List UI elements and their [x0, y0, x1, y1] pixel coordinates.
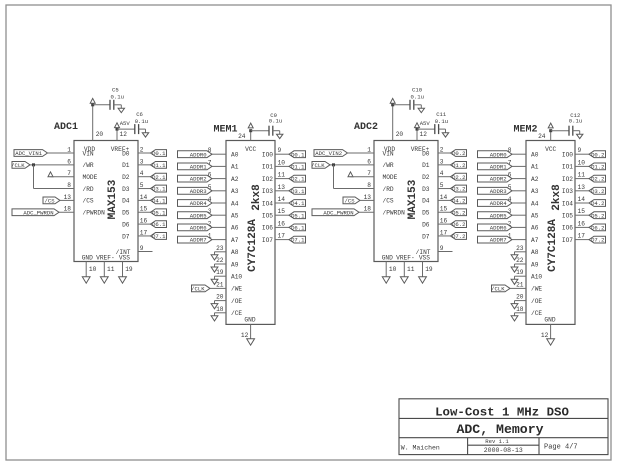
- svg-text:21: 21: [216, 281, 224, 288]
- wire IO1 to tag: [275, 165, 289, 167]
- svg-text:MODE: MODE: [83, 174, 98, 181]
- svg-text:11: 11: [578, 172, 586, 179]
- svg-text:D1.1: D1.1: [152, 162, 166, 169]
- net label D7.1: [151, 233, 167, 241]
- wire GND pin 12 stub: [250, 324, 252, 338]
- svg-text:IO2: IO2: [262, 176, 273, 183]
- svg-text:ADDR0: ADDR0: [490, 151, 507, 158]
- svg-text:IO1: IO1: [262, 164, 273, 171]
- svg-text:10: 10: [89, 266, 97, 273]
- svg-text:9: 9: [578, 147, 582, 154]
- junction: [32, 163, 35, 166]
- wire /CLK to pin 6 /WR: [30, 164, 74, 166]
- wire A10 to ground: [515, 275, 527, 277]
- wire cap to ground: [114, 104, 122, 106]
- svg-text:5: 5: [140, 182, 144, 189]
- wire IO4 to tag: [575, 202, 589, 204]
- title block: [399, 399, 608, 455]
- svg-text:MODE: MODE: [383, 174, 398, 181]
- svg-text:12: 12: [120, 131, 128, 138]
- svg-text:/WE: /WE: [531, 286, 542, 293]
- svg-text:A1: A1: [231, 164, 239, 171]
- svg-text:IO3: IO3: [262, 188, 273, 195]
- wire IO2 to tag: [575, 178, 589, 180]
- net label D1.2: [451, 161, 467, 169]
- wire /CLK branch to pin 8 /RD: [334, 188, 375, 190]
- wire cap to ground: [573, 130, 580, 132]
- svg-text:/CE: /CE: [231, 310, 242, 317]
- svg-text:A8: A8: [531, 249, 539, 256]
- svg-text:15: 15: [440, 206, 448, 213]
- svg-text:/CLK: /CLK: [491, 286, 505, 293]
- power +5V at VDD: [90, 98, 95, 103]
- svg-text:D1: D1: [122, 162, 130, 169]
- svg-text:W. Maichen: W. Maichen: [401, 444, 440, 451]
- svg-text:20: 20: [516, 294, 524, 301]
- svg-text:/OE: /OE: [231, 298, 242, 305]
- svg-text:19: 19: [516, 269, 524, 276]
- wire bottom pin stub: [85, 262, 87, 277]
- wire VREF+ to C11: [417, 128, 435, 130]
- svg-text:D7.1: D7.1: [152, 233, 166, 240]
- net label D1.1: [289, 163, 306, 171]
- svg-text:19: 19: [425, 266, 433, 273]
- svg-text:4: 4: [140, 170, 144, 177]
- svg-text:ADDR7: ADDR7: [490, 237, 507, 244]
- net label ADC_PWRDN: [312, 209, 359, 217]
- wire ADC_VIN1 to pin 1: [48, 152, 75, 154]
- svg-text:A9: A9: [531, 261, 539, 268]
- net label D5.2: [451, 209, 467, 217]
- ground: [211, 255, 218, 260]
- wire bottom pin stub: [403, 262, 405, 277]
- svg-text:IO1: IO1: [562, 164, 573, 171]
- svg-text:IO0: IO0: [562, 152, 573, 159]
- wire bottom pin stub: [385, 262, 387, 277]
- svg-text:ADDR1: ADDR1: [490, 164, 507, 171]
- svg-text:10: 10: [278, 159, 286, 166]
- svg-text:D4.1: D4.1: [152, 198, 166, 205]
- svg-text:/CS: /CS: [383, 198, 394, 205]
- svg-text:GND: GND: [244, 317, 255, 324]
- svg-text:15: 15: [140, 206, 148, 213]
- capacitor C12 0.1u: [569, 112, 582, 136]
- svg-text:MAX153: MAX153: [407, 179, 419, 219]
- net label D4.1: [289, 200, 306, 208]
- svg-text:ADC2: ADC2: [354, 122, 378, 133]
- svg-text:23: 23: [516, 245, 524, 252]
- svg-text:7: 7: [367, 170, 371, 177]
- svg-text:VCC: VCC: [245, 146, 256, 153]
- net label ADC_VIN2: [314, 150, 348, 158]
- svg-text:D4.2: D4.2: [591, 200, 604, 207]
- svg-text:12: 12: [241, 332, 249, 339]
- svg-text:ADDR5: ADDR5: [190, 212, 207, 219]
- wire IO6 to tag: [275, 226, 289, 228]
- wire /CLK to /WE: [210, 287, 226, 289]
- wire ADDR7 to A7: [512, 239, 526, 241]
- junction: [549, 129, 552, 132]
- wire cap to ground: [139, 128, 146, 130]
- wire VDD to C5: [93, 104, 110, 106]
- svg-text:A3: A3: [231, 188, 239, 195]
- svg-text:VDD: VDD: [384, 146, 395, 153]
- net label D6.1: [289, 224, 306, 232]
- svg-text:VREF-: VREF-: [396, 255, 415, 262]
- svg-text:7: 7: [67, 170, 71, 177]
- wire D2 pin to tag: [438, 176, 451, 178]
- svg-text:ADDR0: ADDR0: [190, 151, 207, 158]
- net label ADDR5: [478, 212, 513, 220]
- net label D7.1: [289, 236, 306, 244]
- svg-text:D0.2: D0.2: [452, 150, 465, 157]
- ground: [211, 304, 218, 309]
- svg-text:8: 8: [67, 182, 71, 189]
- wire ADC_PWRDN to pin 18: [59, 211, 74, 213]
- wire A8 to ground: [215, 251, 227, 253]
- svg-text:24: 24: [238, 133, 246, 140]
- wire IO6 to tag: [575, 226, 589, 228]
- svg-text:D1: D1: [422, 162, 430, 169]
- wire D6 pin to tag: [438, 223, 451, 225]
- svg-text:MAX153: MAX153: [107, 179, 119, 219]
- wire IO5 to tag: [575, 214, 589, 216]
- svg-text:A3: A3: [531, 188, 539, 195]
- svg-text:D4: D4: [122, 198, 130, 205]
- net label D5.2: [589, 212, 606, 220]
- svg-text:IO7: IO7: [262, 237, 273, 244]
- IC MEM1 CY7C128A 2kx8 SRAM: [208, 125, 285, 340]
- svg-text:D3.2: D3.2: [452, 186, 465, 193]
- svg-text:A8: A8: [231, 249, 239, 256]
- wire D4 pin to tag: [138, 199, 151, 201]
- net label D3.2: [451, 185, 467, 193]
- wire D5 pin to tag: [138, 211, 151, 213]
- wire ADC_PWRDN to pin 18: [359, 211, 374, 213]
- svg-text:D5: D5: [422, 210, 430, 217]
- svg-text:20: 20: [96, 131, 104, 138]
- svg-text:D4.1: D4.1: [291, 200, 305, 207]
- svg-text:A10: A10: [531, 274, 542, 281]
- net label D2.1: [151, 173, 167, 181]
- junction: [416, 128, 419, 131]
- svg-text:1: 1: [67, 146, 71, 153]
- svg-text:0.1u: 0.1u: [111, 93, 124, 100]
- wire ADDR5 to A5: [512, 214, 526, 216]
- wire D2 pin to tag: [138, 176, 151, 178]
- svg-text:0.1u: 0.1u: [269, 118, 282, 125]
- net label ADDR6: [178, 224, 213, 232]
- svg-text:D2.1: D2.1: [291, 176, 305, 183]
- svg-text:14: 14: [140, 194, 148, 201]
- svg-text:D7: D7: [122, 233, 130, 240]
- svg-text:D6: D6: [122, 221, 130, 228]
- svg-text:D2.2: D2.2: [452, 174, 465, 181]
- ground: [119, 277, 127, 283]
- wire D3 pin to tag: [138, 188, 151, 190]
- net label ADDR1: [478, 163, 513, 171]
- wire D1 pin to tag: [438, 164, 451, 166]
- svg-text:D0.1: D0.1: [152, 150, 166, 157]
- svg-text:VCC: VCC: [545, 146, 556, 153]
- svg-text:D2.1: D2.1: [152, 174, 166, 181]
- svg-text:A9: A9: [231, 261, 239, 268]
- ground: [211, 316, 218, 321]
- svg-text:18: 18: [516, 306, 524, 313]
- svg-text:6: 6: [367, 158, 371, 165]
- capacitor C10 0.1u: [410, 86, 424, 110]
- ground: [382, 277, 390, 283]
- net label ADDR7: [478, 236, 513, 244]
- net label /CLK: [491, 285, 510, 293]
- IC U2 ADC2 MAX153 8-bit ADC: [354, 122, 448, 273]
- svg-text:D7.2: D7.2: [591, 237, 604, 244]
- wire /INT stub pin 9: [438, 251, 453, 253]
- wire +5V to pin 7 MODE: [51, 176, 75, 178]
- wire +5V to pin 7 MODE: [351, 176, 375, 178]
- net label /CS: [43, 197, 60, 205]
- svg-text:/OE: /OE: [531, 298, 542, 305]
- wire /INT stub pin 9: [138, 251, 153, 253]
- svg-text:18: 18: [216, 306, 224, 313]
- wire cap to ground: [414, 104, 422, 106]
- svg-text:ADC, Memory: ADC, Memory: [456, 422, 543, 437]
- wire D7 pin to tag: [438, 235, 451, 237]
- svg-text:/WR: /WR: [83, 162, 94, 169]
- svg-text:A5: A5: [231, 213, 239, 220]
- wire IO0 to tag: [575, 153, 589, 155]
- svg-text:GND: GND: [382, 255, 393, 262]
- net label ADDR4: [478, 200, 513, 208]
- svg-text:15: 15: [278, 208, 286, 215]
- wire A9 to ground: [215, 263, 227, 265]
- wire IO1 to tag: [575, 165, 589, 167]
- svg-text:ADDR4: ADDR4: [190, 200, 207, 207]
- net label D4.1: [151, 197, 167, 205]
- svg-text:VREF-: VREF-: [96, 255, 115, 262]
- svg-text:A7: A7: [531, 237, 539, 244]
- net label /CLK: [311, 161, 330, 169]
- wire ADC_VIN2 to pin 1: [348, 152, 375, 154]
- wire VREF+ pin 12 stub: [116, 129, 118, 140]
- svg-text:D5.2: D5.2: [591, 212, 604, 219]
- net label ADDR3: [178, 187, 213, 195]
- svg-text:A5: A5: [531, 213, 539, 220]
- net label /CS: [343, 197, 360, 205]
- svg-text:13: 13: [364, 194, 372, 201]
- svg-text:/PWRDN: /PWRDN: [383, 210, 406, 217]
- svg-text:IO0: IO0: [262, 152, 273, 159]
- wire VREF+ pin 12 stub: [416, 129, 418, 140]
- svg-text:A4: A4: [531, 200, 539, 207]
- svg-text:A5V: A5V: [120, 120, 131, 127]
- wire ADDR3 to A3: [512, 190, 526, 192]
- wire bottom pin stub: [122, 262, 124, 277]
- svg-text:ADDR3: ADDR3: [190, 188, 207, 195]
- svg-text:ADC_VIN2: ADC_VIN2: [315, 150, 342, 157]
- svg-text:C6: C6: [136, 111, 143, 118]
- svg-text:0.1u: 0.1u: [411, 93, 424, 100]
- svg-text:GND: GND: [544, 317, 555, 324]
- svg-text:D1.2: D1.2: [591, 164, 604, 171]
- power +5V at VDD: [390, 98, 395, 103]
- svg-text:A6: A6: [531, 225, 539, 232]
- wire cap to ground: [439, 128, 446, 130]
- ground: [277, 134, 283, 138]
- wire IO3 to tag: [575, 190, 589, 192]
- wire ADDR4 to A4: [212, 202, 226, 204]
- svg-text:A2: A2: [231, 176, 239, 183]
- svg-text:ADDR5: ADDR5: [490, 212, 507, 219]
- svg-text:6: 6: [67, 158, 71, 165]
- net label D1.1: [151, 161, 167, 169]
- svg-text:VDD: VDD: [84, 146, 95, 153]
- wire ADDR0 to A0: [512, 153, 526, 155]
- svg-text:D4.2: D4.2: [452, 198, 465, 205]
- svg-text:17: 17: [278, 233, 286, 240]
- junction: [249, 129, 252, 132]
- svg-text:IO2: IO2: [562, 176, 573, 183]
- net label D6.1: [151, 221, 167, 229]
- svg-text:3: 3: [440, 158, 444, 165]
- svg-text:9: 9: [278, 147, 282, 154]
- net label ADDR3: [478, 187, 513, 195]
- svg-text:D6: D6: [422, 221, 430, 228]
- wire IO7 to tag: [575, 239, 589, 241]
- svg-text:ADC_VIN1: ADC_VIN1: [15, 150, 42, 157]
- svg-text:A0: A0: [531, 152, 539, 159]
- svg-text:D5.1: D5.1: [291, 212, 305, 219]
- wire D0 pin to tag: [438, 152, 451, 154]
- net label ADDR2: [478, 175, 513, 183]
- svg-text:D2: D2: [422, 174, 430, 181]
- svg-text:14: 14: [440, 194, 448, 201]
- svg-text:9: 9: [440, 245, 444, 252]
- wire /CS to pin 13: [60, 199, 74, 201]
- svg-text:ADDR4: ADDR4: [490, 200, 507, 207]
- net label D2.1: [289, 175, 306, 183]
- net label /CLK: [11, 161, 30, 169]
- wire ADDR4 to A4: [512, 202, 526, 204]
- svg-text:/CLK: /CLK: [191, 286, 205, 293]
- ground: [511, 255, 518, 260]
- wire /CLK branch vertical: [33, 165, 35, 189]
- wire IO5 to tag: [275, 214, 289, 216]
- svg-text:0.1u: 0.1u: [435, 118, 448, 125]
- net label ADC_VIN1: [14, 150, 48, 158]
- wire VDD to C10: [393, 104, 410, 106]
- svg-text:12: 12: [541, 332, 549, 339]
- svg-text:A6: A6: [231, 225, 239, 232]
- power A5V at VREF+: [415, 123, 420, 128]
- svg-text:16: 16: [440, 218, 448, 225]
- svg-text:ADDR2: ADDR2: [490, 176, 507, 183]
- ground: [418, 108, 424, 112]
- capacitor C6 0.1u: [135, 111, 148, 134]
- net label D3.1: [151, 185, 167, 193]
- net label D0.2: [589, 151, 606, 159]
- ground: [118, 108, 124, 112]
- svg-text:16: 16: [278, 220, 286, 227]
- svg-text:ADDR2: ADDR2: [190, 176, 207, 183]
- ground: [511, 267, 518, 272]
- wire IO0 to tag: [275, 153, 289, 155]
- svg-text:17: 17: [578, 233, 586, 240]
- wire /CLK to /WE: [510, 287, 526, 289]
- net label D3.1: [289, 187, 306, 195]
- svg-text:D5: D5: [122, 210, 130, 217]
- svg-text:GND: GND: [82, 255, 93, 262]
- svg-text:D0.1: D0.1: [291, 151, 305, 158]
- svg-text:18: 18: [64, 206, 72, 213]
- svg-text:IO4: IO4: [562, 200, 573, 207]
- power +5V at MODE: [48, 172, 53, 177]
- wire IO7 to tag: [275, 239, 289, 241]
- svg-text:2: 2: [140, 146, 144, 153]
- wire ADDR3 to A3: [212, 190, 226, 192]
- net label /CLK: [191, 285, 210, 293]
- wire VREF+ to C6: [117, 128, 135, 130]
- svg-text:ADC_PWRDN: ADC_PWRDN: [23, 209, 53, 216]
- power +5V at MODE: [348, 172, 353, 177]
- svg-text:CY7C128A: CY7C128A: [547, 219, 559, 272]
- svg-text:11: 11: [407, 266, 415, 273]
- svg-text:Rev 1.1: Rev 1.1: [485, 438, 509, 445]
- junction: [391, 103, 394, 106]
- wire ADDR6 to A6: [512, 226, 526, 228]
- svg-text:IO4: IO4: [262, 200, 273, 207]
- net label D2.2: [451, 173, 467, 181]
- svg-text:VSS: VSS: [419, 255, 430, 262]
- wire VDD pin 20 stub: [92, 105, 94, 141]
- ground: [511, 304, 518, 309]
- svg-text:/PWRDN: /PWRDN: [83, 210, 106, 217]
- ground: [511, 279, 518, 284]
- svg-text:IO6: IO6: [262, 225, 273, 232]
- svg-text:C5: C5: [112, 86, 119, 93]
- svg-text:A2: A2: [531, 176, 539, 183]
- svg-text:ADDR7: ADDR7: [190, 237, 207, 244]
- svg-text:A1: A1: [531, 164, 539, 171]
- svg-text:Page 4/7: Page 4/7: [544, 444, 578, 452]
- svg-text:10: 10: [389, 266, 397, 273]
- capacitor C5 0.1u: [110, 86, 124, 110]
- wire ADDR6 to A6: [212, 226, 226, 228]
- wire /CE to ground: [515, 312, 527, 314]
- svg-text:22: 22: [216, 257, 224, 264]
- ground: [100, 277, 108, 283]
- svg-text:11: 11: [107, 266, 115, 273]
- wire ADDR5 to A5: [212, 214, 226, 216]
- svg-text:D6.1: D6.1: [152, 221, 166, 228]
- svg-text:C10: C10: [412, 86, 423, 93]
- svg-text:3: 3: [140, 158, 144, 165]
- svg-text:8: 8: [367, 182, 371, 189]
- svg-text:23: 23: [216, 245, 224, 252]
- svg-text:/WE: /WE: [231, 286, 242, 293]
- wire IO2 to tag: [275, 178, 289, 180]
- svg-text:Low-Cost 1 MHz DSO: Low-Cost 1 MHz DSO: [435, 405, 569, 419]
- svg-text:17: 17: [140, 229, 148, 236]
- svg-text:15: 15: [578, 208, 586, 215]
- wire D5 pin to tag: [438, 211, 451, 213]
- net label ADDR7: [178, 236, 213, 244]
- svg-text:11: 11: [278, 172, 286, 179]
- svg-text:1: 1: [367, 146, 371, 153]
- ground: [577, 134, 583, 138]
- svg-text:D5.1: D5.1: [152, 209, 166, 216]
- ground: [442, 133, 448, 137]
